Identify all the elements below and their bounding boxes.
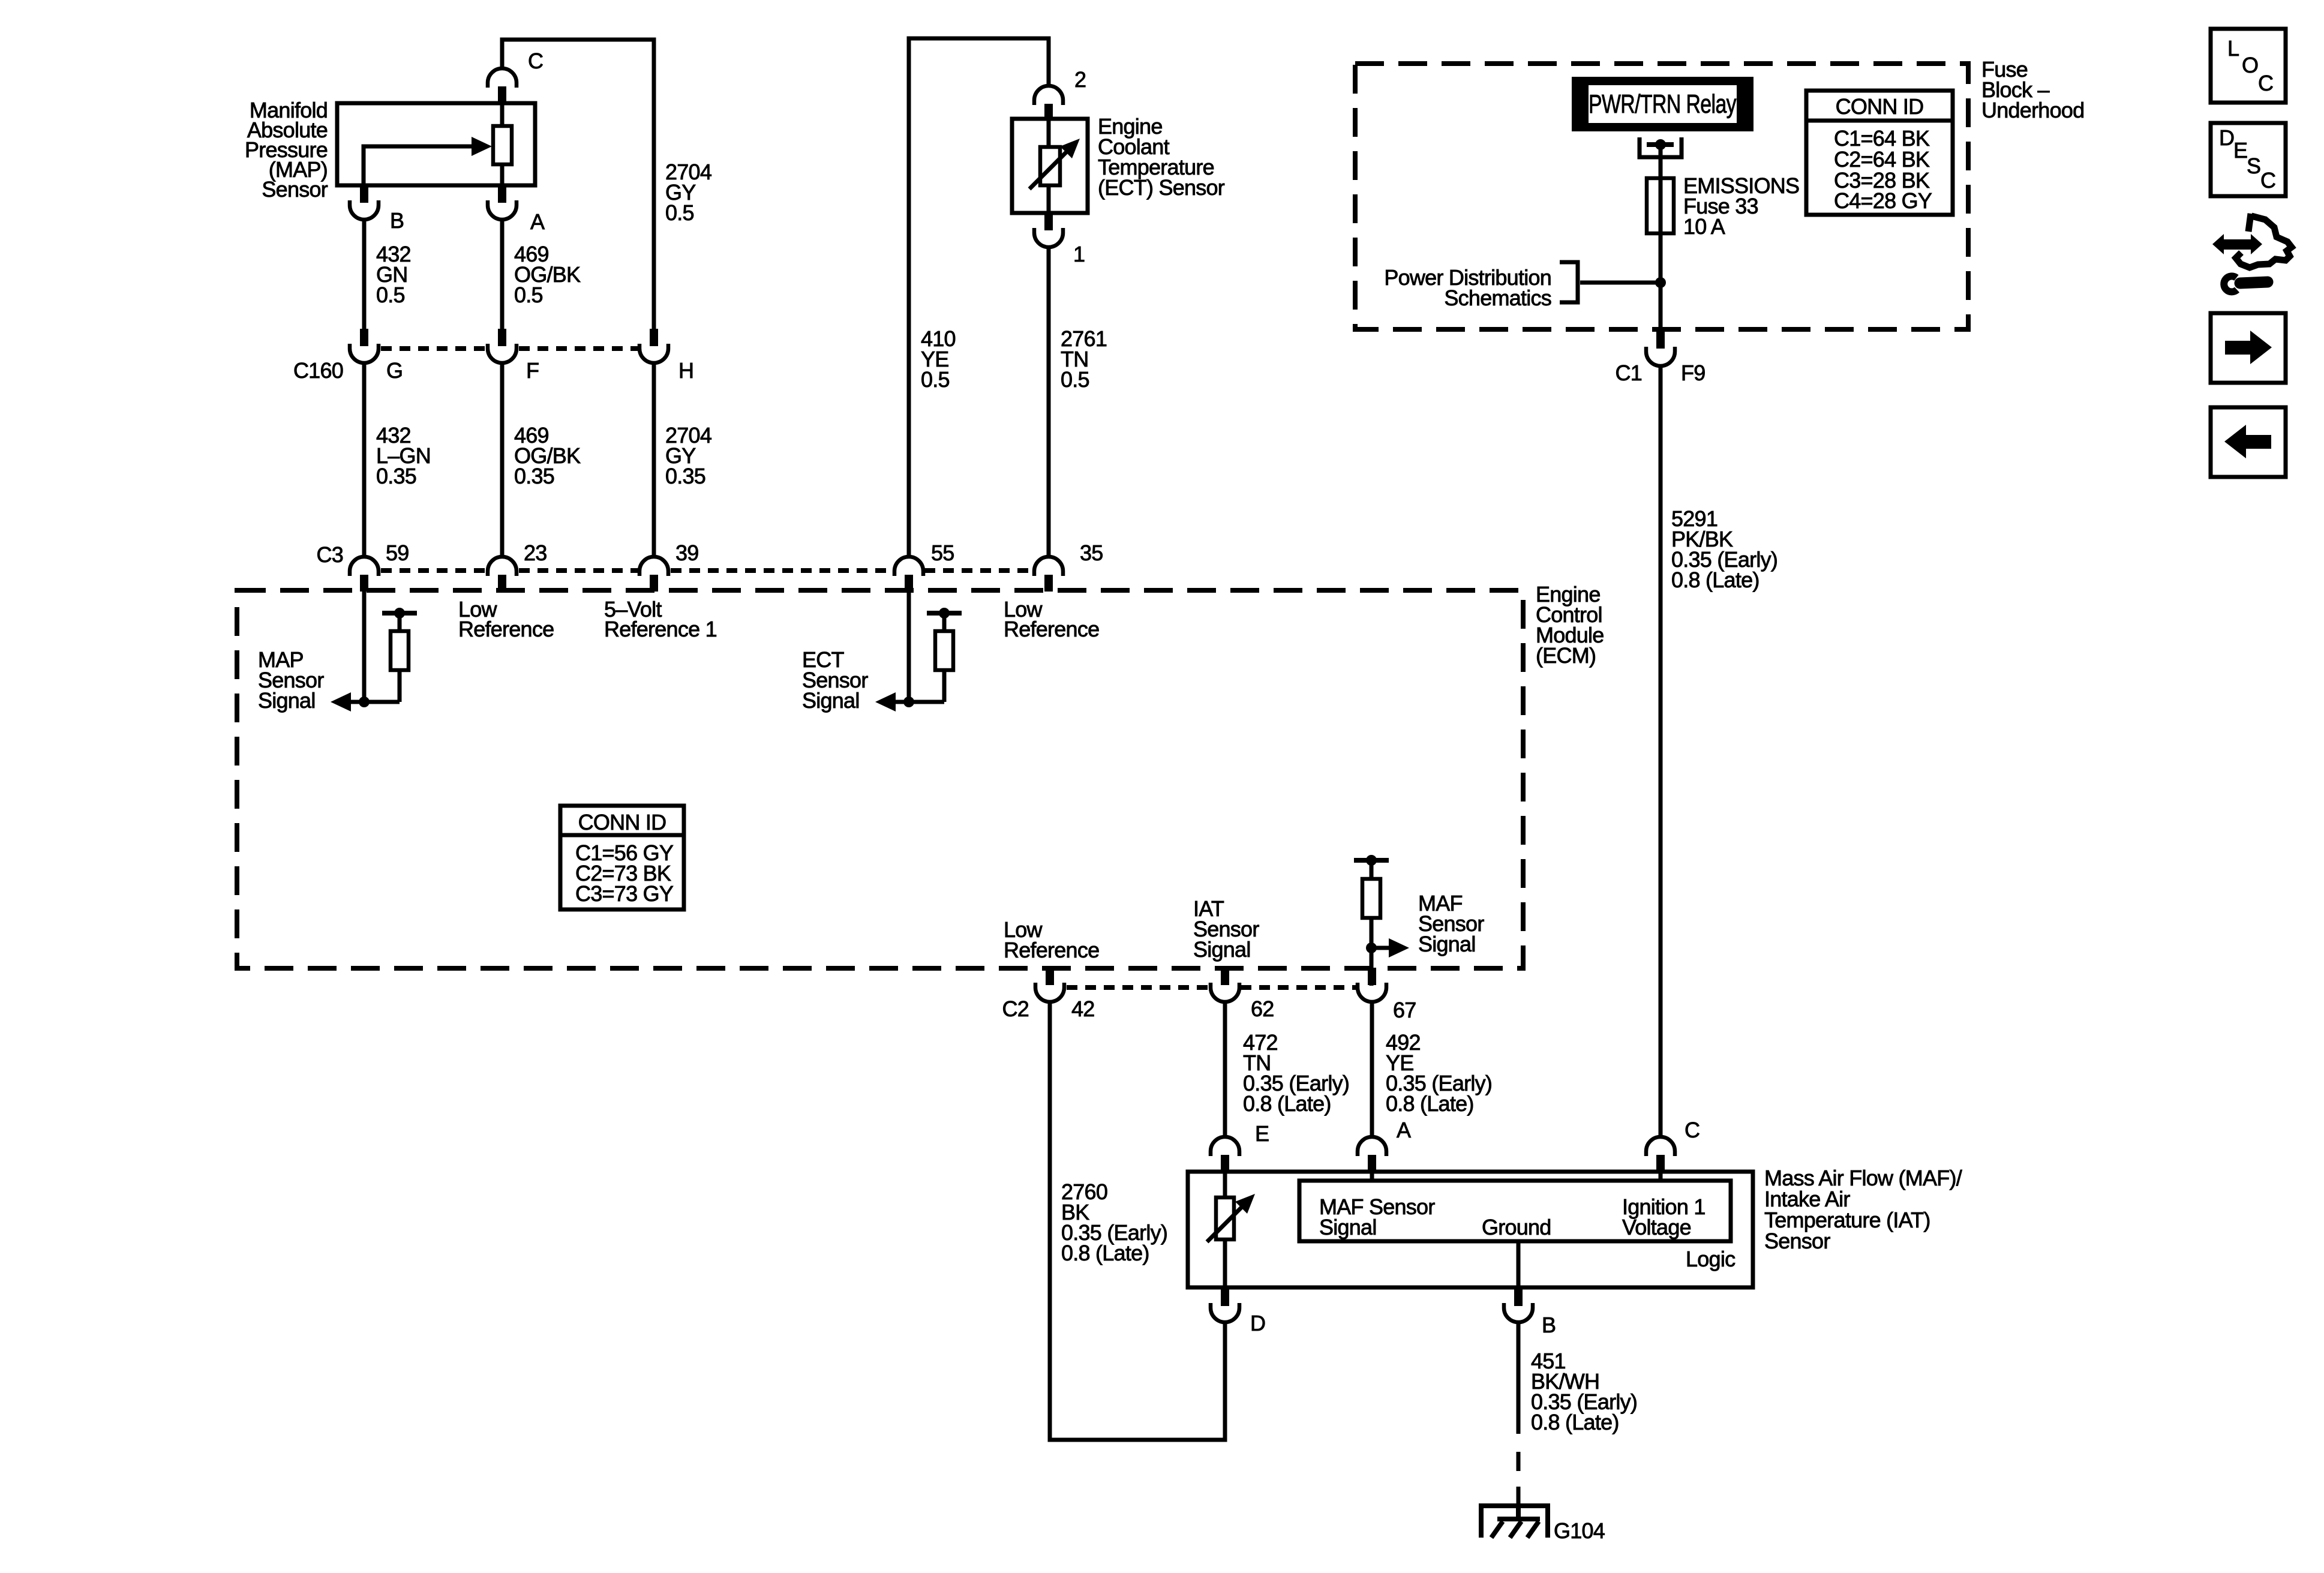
- svg-text:0.5: 0.5: [665, 200, 694, 225]
- pull-up resistor (MAF): [1370, 860, 1374, 880]
- svg-text:55: 55: [931, 541, 954, 565]
- wire: 410 YE top run to ECT pin 2: [909, 38, 1049, 558]
- connector 62 arc: [1211, 983, 1239, 1002]
- stub: MAF pin A: [1368, 1155, 1376, 1172]
- svg-text:39: 39: [675, 541, 699, 565]
- IAT thermistor inside MAF box: [1223, 1173, 1227, 1199]
- wire 2761 TN (ECT 1 to 35): [1047, 247, 1051, 558]
- junction dot on bar: [939, 608, 950, 619]
- connector 2 (ECT) arc: [1034, 86, 1063, 105]
- svg-text:PWR/TRN Relay: PWR/TRN Relay: [1589, 89, 1737, 119]
- LOC icon box: [2211, 29, 2286, 103]
- connector C1/F9 arc: [1646, 347, 1675, 366]
- connector 42 arc: [1035, 983, 1064, 1002]
- svg-text:F9: F9: [1681, 361, 1706, 385]
- junction dot on bar: [1366, 855, 1377, 866]
- relay output bracket: [1640, 137, 1682, 157]
- svg-text:Signal: Signal: [258, 688, 316, 713]
- svg-text:Reference: Reference: [1004, 938, 1099, 962]
- ECT signal arrow: [875, 692, 896, 712]
- svg-text:23: 23: [524, 541, 547, 565]
- ECT signal wire and junction: [894, 700, 944, 704]
- connector B arc (MAF): [1504, 1303, 1533, 1322]
- junction dot on bar: [394, 608, 405, 619]
- MAF logic inner box: [1299, 1181, 1731, 1241]
- connector 1 (ECT) arc: [1034, 228, 1063, 247]
- svg-text:O: O: [2242, 53, 2258, 77]
- ECT sensor box: [1012, 119, 1088, 213]
- MAP wiper arrow: [364, 146, 475, 185]
- svg-text:(ECT) Sensor: (ECT) Sensor: [1098, 175, 1225, 200]
- connector A (MAP) arc: [488, 200, 517, 220]
- power distribution bracket: [1560, 262, 1578, 302]
- svg-text:0.8 (Late): 0.8 (Late): [1671, 568, 1759, 592]
- ECT signal pull-up: top bar: [927, 611, 962, 616]
- wire: MAP pin C up and over to 2704 GY drop (node C to H): [502, 40, 654, 329]
- stub: ECM pin 55: [905, 575, 913, 592]
- svg-text:0.5: 0.5: [376, 283, 405, 307]
- svg-text:C3: C3: [316, 542, 343, 567]
- stub: MAF pin B: [1514, 1289, 1523, 1306]
- stub: fuse block pin F9: [1656, 331, 1665, 349]
- connector C arc (MAF): [1646, 1137, 1675, 1156]
- connector 23 arc: [488, 557, 517, 576]
- wire fuse down to C1: [1659, 233, 1663, 329]
- stub: ECM pin 35: [1044, 575, 1053, 592]
- back arrow icon: [2211, 407, 2286, 477]
- connector 39 arc: [639, 557, 668, 576]
- svg-text:0.8 (Late): 0.8 (Late): [1243, 1091, 1331, 1116]
- svg-text:G104: G104: [1554, 1518, 1605, 1543]
- MAF ground wire inside box: [1517, 1241, 1521, 1287]
- stub: pin B under MAP box: [360, 185, 368, 203]
- svg-text:0.35: 0.35: [514, 464, 554, 488]
- wire 2760 BK (42 to MAF D): [1050, 1002, 1225, 1440]
- svg-text:0.8 (Late): 0.8 (Late): [1061, 1241, 1149, 1265]
- stub: MAF pin D: [1221, 1289, 1229, 1306]
- svg-text:67: 67: [1393, 998, 1416, 1022]
- svg-text:G: G: [386, 358, 403, 383]
- svg-text:C: C: [2260, 168, 2275, 193]
- MAP signal pull-up: top bar: [382, 611, 417, 616]
- MAF signal circuit inside ECM: top bar: [1354, 858, 1389, 863]
- svg-text:C: C: [2258, 71, 2273, 95]
- DESC icon box: [2211, 123, 2286, 196]
- ECM dashed box: [237, 590, 1523, 968]
- svg-text:A: A: [1397, 1118, 1411, 1142]
- svg-text:Underhood: Underhood: [1981, 98, 2084, 122]
- svg-text:62: 62: [1251, 996, 1274, 1021]
- forward arrow icon: [2211, 313, 2286, 383]
- svg-text:B: B: [1542, 1313, 1556, 1337]
- dashed continuation of ground wire: [1517, 1452, 1521, 1471]
- stub: ECT pin 2: [1044, 104, 1053, 120]
- stub: ECM pin 39: [650, 575, 658, 592]
- MAF signal arrow (right): [1371, 946, 1391, 950]
- wire 432 L-GN (G to 59): [362, 363, 367, 558]
- stub: pin A under MAP box: [498, 185, 506, 203]
- stub: MAF pin C: [1656, 1155, 1665, 1172]
- svg-text:Ground: Ground: [1482, 1215, 1551, 1239]
- svg-text:0.5: 0.5: [514, 283, 543, 307]
- stub: pin C into MAP box: [498, 86, 506, 104]
- wire to power distribution bracket: [1580, 281, 1661, 285]
- MAP sensor box: [337, 103, 535, 185]
- connector G arc: [350, 344, 379, 363]
- pull-up resistor (MAP): [398, 613, 402, 632]
- svg-text:42: 42: [1071, 996, 1095, 1021]
- svg-text:L: L: [2227, 36, 2239, 61]
- service icon: outline: [2248, 214, 2251, 232]
- connector A arc: [1358, 1137, 1386, 1156]
- wire from pin 55 into ECM: [907, 592, 911, 702]
- wire 451 BK/WH (MAF B to G104): [1517, 1322, 1521, 1434]
- ECM CONN ID table box: [560, 806, 684, 909]
- wire from pin 59 into ECM: [362, 592, 367, 702]
- C3 dashed harness line: [381, 568, 487, 573]
- svg-text:Signal: Signal: [1418, 932, 1476, 956]
- fuse block dashed box: [1355, 64, 1968, 329]
- connector D arc: [1211, 1303, 1239, 1322]
- svg-text:D: D: [1250, 1311, 1265, 1335]
- fuse block CONN ID table: [1806, 91, 1953, 215]
- svg-text:C2: C2: [1002, 996, 1029, 1021]
- svg-text:0.8 (Late): 0.8 (Late): [1386, 1091, 1474, 1116]
- wire 469 OG/BK (F to 23): [500, 363, 505, 558]
- EMISSIONS Fuse 33: [1647, 178, 1674, 233]
- junction dot power distribution: [1655, 277, 1666, 288]
- svg-text:Reference: Reference: [458, 617, 554, 641]
- wire 5291 PK/BK (F9 to MAF C): [1659, 366, 1663, 1137]
- svg-text:F: F: [526, 358, 539, 383]
- stub: ECM pin 59: [360, 575, 368, 592]
- svg-text:Signal: Signal: [802, 688, 860, 713]
- svg-text:0.5: 0.5: [921, 367, 950, 392]
- MAF signal junction dot: [1366, 942, 1377, 953]
- MAP internal potentiometer resistor: [500, 103, 505, 127]
- svg-text:0.8 (Late): 0.8 (Late): [1531, 1410, 1619, 1434]
- svg-text:A: A: [530, 209, 545, 234]
- svg-text:0.35: 0.35: [665, 464, 705, 488]
- stub: MAF pin E: [1221, 1155, 1229, 1172]
- stub: ECM pin 23: [498, 575, 506, 592]
- service icon: double arrow: [2212, 234, 2224, 254]
- svg-text:S: S: [2247, 154, 2260, 178]
- svg-text:10 A: 10 A: [1683, 214, 1725, 239]
- connector F arc: [488, 344, 517, 363]
- svg-text:Voltage: Voltage: [1622, 1215, 1691, 1239]
- wire 492 YE (67 to MAF A): [1370, 1002, 1374, 1137]
- svg-text:Logic: Logic: [1686, 1247, 1736, 1271]
- service icon: wrench: [2240, 282, 2268, 283]
- MAP signal wire and junction: [350, 700, 400, 704]
- svg-text:Signal: Signal: [1193, 937, 1251, 962]
- connector 55 arc: [894, 557, 923, 576]
- stub: ECM pin 67: [1368, 968, 1376, 985]
- svg-text:Reference 1: Reference 1: [604, 617, 717, 641]
- svg-text:C: C: [1685, 1118, 1700, 1142]
- svg-text:CONN ID: CONN ID: [1836, 94, 1924, 119]
- C160 dashed harness line: [381, 346, 487, 351]
- wire 469 OG/BK (MAP A to C160 F): [500, 220, 505, 329]
- stub: C160 pin F: [498, 329, 506, 346]
- svg-text:C3=73 GY: C3=73 GY: [575, 881, 674, 906]
- svg-text:1: 1: [1073, 242, 1085, 266]
- svg-text:0.35: 0.35: [376, 464, 416, 488]
- MAP signal arrow: [331, 692, 351, 712]
- svg-text:Signal: Signal: [1319, 1215, 1377, 1239]
- wire 472 TN (62 to IAT E): [1223, 1002, 1227, 1137]
- svg-text:0.5: 0.5: [1061, 367, 1089, 392]
- stub: ECM pin 62: [1221, 968, 1229, 985]
- connector 35 arc: [1034, 557, 1063, 576]
- connector E arc: [1211, 1137, 1239, 1156]
- PWR/TRN Relay bold box: [1572, 77, 1753, 131]
- stub: C160 pin G: [360, 329, 368, 346]
- svg-text:59: 59: [386, 541, 409, 565]
- svg-text:CONN ID: CONN ID: [578, 810, 666, 834]
- svg-text:C160: C160: [293, 358, 343, 383]
- svg-text:2: 2: [1074, 67, 1086, 92]
- svg-text:35: 35: [1080, 541, 1103, 565]
- svg-text:E: E: [2233, 138, 2247, 163]
- svg-text:Sensor: Sensor: [262, 177, 328, 202]
- wire 2704 GY (H to 39): [652, 363, 656, 558]
- svg-text:Reference: Reference: [1004, 617, 1099, 641]
- relay bar and junction dot: [1647, 142, 1674, 147]
- wire relay to fuse: [1659, 145, 1663, 179]
- C2 dashed harness line: [1067, 985, 1209, 990]
- svg-text:B: B: [390, 208, 404, 233]
- connector B (MAP) arc: [350, 200, 379, 220]
- wire 432 GN (MAP B to C160 G): [362, 220, 367, 329]
- connector H arc: [639, 344, 668, 363]
- stub: ECT pin 1: [1044, 213, 1053, 230]
- MAF/IAT outer box: [1188, 1172, 1753, 1287]
- svg-text:E: E: [1255, 1121, 1269, 1146]
- svg-text:Sensor: Sensor: [1764, 1229, 1830, 1253]
- ground G104 symbol: [1516, 1503, 1521, 1519]
- ECT thermistor: [1047, 119, 1051, 148]
- pull-up resistor (ECT): [942, 613, 947, 632]
- stub: ECM pin 42: [1046, 968, 1054, 985]
- svg-text:(ECM): (ECM): [1536, 643, 1596, 668]
- stub: C160 pin H: [650, 329, 658, 346]
- connector C (MAP) arc: [488, 68, 517, 88]
- connector 67 arc: [1358, 983, 1386, 1002]
- svg-text:H: H: [678, 358, 693, 383]
- connector 59 arc: [350, 557, 379, 576]
- svg-text:C1: C1: [1615, 361, 1642, 385]
- svg-text:D: D: [2219, 125, 2234, 150]
- svg-text:C: C: [528, 49, 543, 73]
- svg-text:C4=28 GY: C4=28 GY: [1834, 188, 1932, 213]
- svg-text:Schematics: Schematics: [1444, 286, 1551, 310]
